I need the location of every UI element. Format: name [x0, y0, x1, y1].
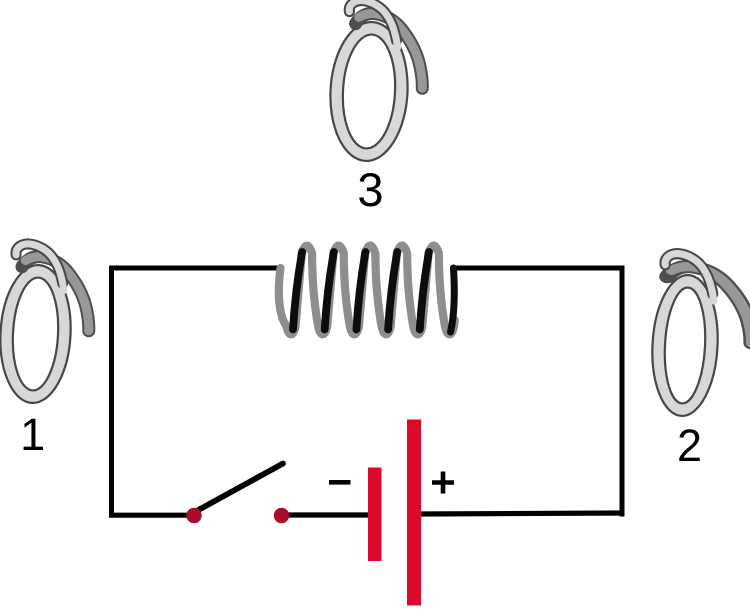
coil 3 (top pickup loop): front wire-end hook — [347, 0, 400, 47]
inductor coil front strand 3 (black) — [356, 252, 365, 330]
battery positive plate (long red bar) — [407, 420, 421, 606]
coil 1 (left pickup loop) — [0, 243, 93, 406]
wire switch-to-battery segment — [285, 512, 368, 517]
coil 3 (top pickup loop): ring band — [327, 20, 411, 163]
inductor coil front strand 5 (black) — [420, 252, 429, 330]
battery negative plate (short red bar) — [368, 468, 382, 562]
coil 2 (right pickup loop): front wire-end hook — [663, 253, 716, 301]
coil 1 (left pickup loop): ring band — [0, 263, 74, 404]
coil 1 (left pickup loop): trailing wire ribbon — [19, 256, 93, 331]
svg-text:3: 3 — [357, 163, 383, 216]
battery plus label — [432, 472, 454, 494]
inductor coil front strand 1 (black) — [293, 252, 302, 330]
switch lever — [197, 464, 284, 512]
coil 2 (right pickup loop): trailing wire ribbon — [664, 265, 750, 342]
coil 3 (top pickup loop): trailing wire ribbon — [352, 12, 426, 88]
coil 2 (right pickup loop): ring band — [649, 273, 721, 417]
coil 1 (left pickup loop): front wire-end hook — [14, 243, 66, 290]
wire top-left segment — [112, 266, 281, 271]
inductor coil front strand 4 (black) — [388, 252, 397, 330]
inductor coil back strands (gray) — [279, 246, 455, 335]
inductor coil front strand 2 (black) — [325, 252, 334, 330]
wire bottom-left segment — [109, 513, 190, 518]
coil 2 (right pickup loop) — [649, 253, 750, 420]
inductor coil exit strand (black) — [451, 268, 455, 332]
svg-text:1: 1 — [20, 409, 45, 460]
switch contact dot left — [186, 508, 201, 523]
wire battery-to-right segment — [420, 513, 625, 514]
svg-text:2: 2 — [677, 420, 702, 471]
battery minus label — [329, 480, 351, 485]
coil 3 (top pickup loop) — [327, 0, 427, 164]
wire left vertical — [109, 266, 114, 518]
switch contact dot right — [274, 508, 289, 523]
wire top-right segment — [452, 266, 622, 271]
wire right vertical — [620, 266, 625, 517]
